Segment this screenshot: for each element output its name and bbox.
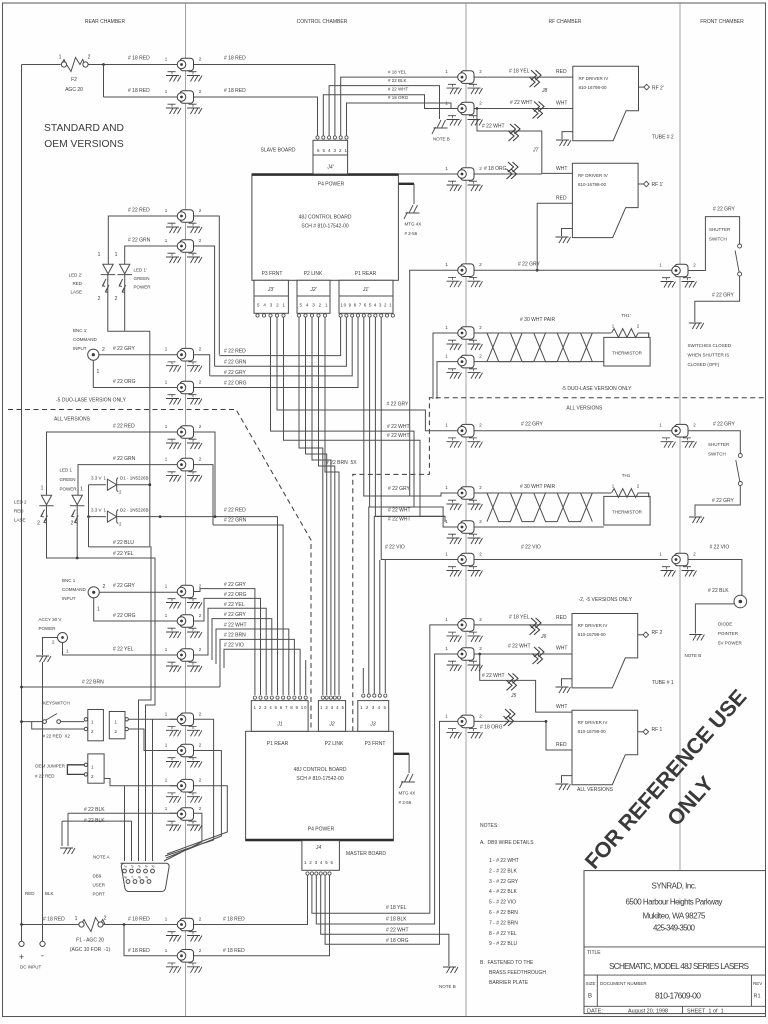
svg-text:RF DRIVER IV: RF DRIVER IV: [578, 720, 608, 725]
svg-text:WHT: WHT: [556, 646, 567, 652]
svg-text:ALL VERSIONS: ALL VERSIONS: [577, 787, 614, 793]
dashed brn-link boundary right: [353, 398, 766, 732]
svg-text:KEYSWITCH: KEYSWITCH: [43, 701, 70, 706]
svg-text:August 20, 1998: August 20, 1998: [628, 1009, 668, 1015]
wire: ACCY pin1 YEL row: [63, 643, 194, 656]
svg-text:# 22 RED X2: # 22 RED X2: [43, 734, 71, 739]
thermistor TH1 box: [604, 473, 650, 525]
svg-text:DATE:: DATE:: [587, 1009, 603, 1015]
title block: [584, 871, 766, 1015]
fuse F1: [70, 916, 111, 954]
svg-text:MASTER BOARD: MASTER BOARD: [346, 851, 386, 857]
wire: TH1' pair top: [466, 333, 648, 337]
svg-text:# 22 YEL: # 22 YEL: [113, 647, 134, 653]
wire: #18 RED bottom row1: [22, 876, 308, 925]
svg-text:# 22 BRN: # 22 BRN: [82, 680, 104, 686]
svg-text:INPUT: INPUT: [73, 346, 87, 351]
notes text block: [480, 823, 546, 986]
wire: slave board top edge to bulkhead row 174: [398, 173, 457, 175]
svg-text:RED: RED: [72, 281, 82, 286]
svg-text:COMMAND: COMMAND: [62, 587, 86, 592]
svg-text:LED 1: LED 1: [60, 468, 73, 473]
svg-text:THERMISTOR: THERMISTOR: [612, 510, 642, 515]
svg-text:2: 2: [37, 521, 40, 527]
wire: MTG stub lower board: [393, 753, 409, 755]
svg-text:RF 1': RF 1': [652, 182, 664, 188]
svg-text:WHT: WHT: [556, 704, 567, 710]
wire: #18 YEL into RF driver U1 RED: [466, 76, 573, 78]
svg-text:B: B: [588, 994, 592, 1000]
svg-text:J3': J3': [267, 287, 275, 293]
wire: DC terminals: [22, 900, 43, 941]
wire: #22 RED all versions row: [47, 432, 216, 517]
svg-text:SWITCHES CLOSED: SWITCHES CLOSED: [688, 343, 732, 348]
feedthrough FT-B13: [445, 713, 482, 738]
svg-text:2: 2: [115, 296, 118, 302]
LED1 green power: [70, 495, 84, 523]
thermistor TH1' box: [604, 313, 650, 366]
wire: D1 row: [89, 484, 150, 486]
slave 48J control board (upper): [252, 174, 399, 280]
svg-text:DOCUMENT NUMBER: DOCUMENT NUMBER: [600, 981, 647, 986]
wire: BNC1' #22 GRY row: [99, 355, 210, 376]
connector J1': [339, 280, 394, 317]
ACCY 30V power jack: [39, 617, 70, 654]
svg-text:P3 FRNT: P3 FRNT: [262, 271, 283, 277]
svg-text:-5 DUO-LASE VERSION ONLY: -5 DUO-LASE VERSION ONLY: [56, 398, 127, 404]
svg-text:# 22 GRY: # 22 GRY: [113, 583, 136, 589]
twisted pair TH1': [487, 333, 592, 362]
svg-text:7 - # 22 BRN: 7 - # 22 BRN: [489, 920, 518, 926]
wire: J3 p4 riser: [379, 560, 381, 695]
svg-text:810-16798-00: 810-16798-00: [578, 632, 607, 637]
svg-text:1: 1: [59, 55, 62, 61]
svg-text:1: 1: [80, 487, 83, 493]
wire: BLK rail ACCY to DC-: [42, 662, 44, 941]
ground note B (top): [432, 120, 448, 134]
wire: MTG stub upper board: [398, 183, 414, 185]
svg-text:5V POWER: 5V POWER: [718, 641, 743, 646]
svg-text:# 22 RED: # 22 RED: [113, 424, 135, 430]
svg-text:RF 2: RF 2: [652, 630, 663, 636]
wire: J1' p8 run to VIO row: [381, 318, 385, 560]
wire: shutter GRY row through front bulkhead: [466, 431, 740, 454]
svg-text:# 22 WHT: # 22 WHT: [482, 673, 505, 679]
RF driver U1 (RF 2'): [573, 66, 664, 140]
svg-text:GREEN: GREEN: [134, 276, 150, 281]
connector J2': [297, 280, 330, 317]
svg-text:# 22 BLK: # 22 BLK: [388, 78, 407, 83]
ground BLK pair: [60, 848, 75, 854]
svg-text:1: 1: [115, 252, 118, 258]
chamber divider control/rf: [465, 3, 467, 1016]
svg-text:# 18 RED: # 18 RED: [223, 917, 245, 923]
feedthrough FT-B10: [445, 552, 482, 577]
svg-text:LED 2': LED 2': [69, 273, 83, 278]
connector J3 (master): [358, 694, 389, 731]
svg-text:# 22 BRN: # 22 BRN: [224, 633, 246, 639]
svg-text:# 22 WHT: # 22 WHT: [224, 623, 247, 629]
svg-text:# 18 RED: # 18 RED: [128, 88, 150, 94]
svg-text:9 - # 22 BLU: 9 - # 22 BLU: [489, 941, 517, 947]
feedthrough FT-C3: [659, 552, 696, 577]
svg-text:POWER: POWER: [60, 487, 78, 492]
wire: #22 BLK slave to note B ground: [329, 86, 439, 138]
wire: #22 BRN row: [22, 686, 221, 688]
feedthrough FT-A15: [165, 806, 202, 831]
svg-text:STANDARD AND: STANDARD AND: [44, 123, 124, 134]
wire: #22 WHT J5 branch into U4 WHT: [480, 654, 572, 712]
ground ACCY: [36, 656, 51, 662]
wire: LED2' cathode drop: [108, 275, 150, 546]
svg-text:DC INPUT: DC INPUT: [20, 965, 42, 970]
feedthrough FT-B9: [445, 519, 482, 544]
svg-text:THERMISTOR: THERMISTOR: [612, 351, 642, 356]
svg-text:A. DB9 WIRE DETAILS: A. DB9 WIRE DETAILS: [480, 840, 534, 846]
svg-text:2: 2: [88, 55, 91, 61]
ground MTG 4X lower: [400, 774, 416, 788]
svg-text:1: 1: [41, 486, 44, 492]
svg-text:# 18 ORG: # 18 ORG: [386, 938, 409, 944]
feedthrough FT-A8: [165, 457, 202, 482]
wire: J3 p3 run: [374, 516, 445, 695]
zener diode D2 1N5226B: [91, 508, 149, 527]
svg-text:NOTE A: NOTE A: [93, 855, 110, 860]
svg-text:# 22 WHT: # 22 WHT: [387, 424, 410, 430]
svg-text:6500 Harbour Heights Parkway: 6500 Harbour Heights Parkway: [626, 898, 723, 907]
svg-text:# 18 BLK: # 18 BLK: [386, 917, 407, 923]
svg-text:RED: RED: [25, 891, 35, 896]
svg-text:RF DRIVER IV: RF DRIVER IV: [579, 76, 609, 81]
svg-text:SHUTTER: SHUTTER: [709, 227, 731, 232]
wire: J3 p2 run: [369, 507, 414, 695]
svg-text:# 22 YEL: # 22 YEL: [113, 551, 134, 557]
wire: #22 GRY row y270: [410, 217, 740, 496]
connector J2 (master): [318, 696, 345, 731]
svg-text:# 22 GRY: # 22 GRY: [224, 582, 247, 588]
svg-text:# 22 GRY: # 22 GRY: [713, 207, 736, 213]
svg-text:# 22 ORG: # 22 ORG: [224, 381, 247, 387]
feedthrough FT-A6: [165, 380, 202, 405]
wire: D left bus: [88, 485, 90, 547]
svg-text:# 18 RED: # 18 RED: [128, 56, 150, 62]
wire: DB9 right-side feeds: [164, 719, 227, 861]
svg-text:J4': J4': [326, 165, 334, 171]
svg-text:J3: J3: [369, 722, 376, 728]
svg-text:# 22 YEL: # 22 YEL: [224, 602, 245, 608]
svg-text:FRONT CHAMBER: FRONT CHAMBER: [700, 19, 744, 25]
svg-text:SWITCH: SWITCH: [708, 452, 726, 457]
svg-text:# 18 RED: # 18 RED: [128, 917, 150, 923]
svg-text:# 22 VIO: # 22 VIO: [385, 545, 405, 551]
svg-text:1 2 3 4 5: 1 2 3 4 5: [320, 705, 344, 710]
svg-text:48J CONTROL BOARD: 48J CONTROL BOARD: [299, 215, 352, 221]
svg-text:810-16798-00: 810-16798-00: [579, 85, 608, 90]
LED2' red lase: [101, 264, 115, 292]
svg-text:# 18 YEL: # 18 YEL: [509, 69, 530, 75]
wire: #18 ORG slave: [347, 103, 452, 138]
svg-text:# 18 RED: # 18 RED: [224, 88, 246, 94]
feedthrough FT-B8: [445, 485, 482, 510]
svg-text:TUBE # 2: TUBE # 2: [652, 135, 674, 141]
svg-text:P3 FRNT: P3 FRNT: [365, 741, 386, 747]
svg-text:TUBE # 1: TUBE # 1: [652, 680, 674, 686]
svg-text:# 22 GRN: # 22 GRN: [224, 518, 247, 524]
svg-text:# 18 RED: # 18 RED: [128, 948, 150, 954]
svg-text:F2: F2: [71, 77, 77, 83]
svg-text:RED: RED: [556, 196, 567, 202]
wire: U4 RED: [546, 721, 572, 750]
wire: keyswitch feed: [22, 722, 85, 729]
wire: J2' brn link bundle p3: [312, 318, 331, 696]
svg-text:# 22 WHT: # 22 WHT: [482, 124, 505, 130]
feedthrough FT-A17: [165, 948, 202, 973]
wire: TH1 pair bottom: [466, 526, 604, 528]
svg-text:2: 2: [71, 521, 74, 527]
svg-text:# 22 GRN: # 22 GRN: [113, 456, 136, 462]
feedthrough FT-A4: [165, 238, 202, 263]
ground RF driver U3: [562, 679, 573, 686]
svg-text:1: 1: [97, 369, 100, 375]
feedthrough FT-A1: [165, 57, 202, 82]
wire: #22 WHT J7 branch into RF driver U2 WHT: [477, 109, 572, 174]
wire: RF driver U2 RED from GRY row junction: [537, 203, 572, 270]
svg-text:# 2-56: # 2-56: [405, 231, 418, 236]
wire: BNC1 pin1 ORG row: [94, 598, 194, 621]
svg-text:RED: RED: [556, 742, 567, 748]
svg-text:# 22 GRY: # 22 GRY: [713, 422, 736, 428]
connector J4 (master): [302, 841, 386, 876]
svg-text:# 22 GRY: # 22 GRY: [224, 370, 247, 376]
wire: J1' p7 run to WHT row: [375, 318, 445, 517]
wire: OEM jumper to bulkhead: [104, 779, 193, 786]
wire: RF driver U3 RED row: [466, 624, 572, 626]
svg-text:10 9 8 7 6 5 4 3 2 1: 10 9 8 7 6 5 4 3 2 1: [341, 303, 392, 308]
svg-text:COMMAND: COMMAND: [73, 337, 97, 342]
svg-text:2: 2: [104, 916, 107, 922]
svg-text:# 18 ORG: # 18 ORG: [484, 166, 507, 172]
wire: J1 p10 riser: [305, 660, 307, 695]
svg-text:J1: J1: [276, 722, 283, 728]
svg-text:NOTE B: NOTE B: [439, 984, 456, 989]
svg-text:1 2 3 4 5 6: 1 2 3 4 5 6: [304, 860, 333, 865]
feedthrough FT-B7: [445, 423, 482, 448]
svg-text:# 22 WHT: # 22 WHT: [510, 100, 533, 106]
ground RF driver U1: [562, 132, 573, 139]
feedthrough FT-B2: [445, 101, 482, 126]
svg-text:1 2 3 4 5: 1 2 3 4 5: [360, 705, 386, 710]
svg-text:CONTROL CHAMBER: CONTROL CHAMBER: [297, 19, 348, 25]
svg-text:NOTE B: NOTE B: [433, 137, 450, 142]
svg-text:SHUTTER: SHUTTER: [708, 442, 730, 447]
svg-text:# 22 GRY: # 22 GRY: [521, 422, 544, 428]
svg-text:# 22 BRN 5X: # 22 BRN 5X: [326, 460, 357, 466]
DC input terminals: [19, 891, 54, 970]
wire: J3 p1 stub: [362, 668, 364, 693]
wire: shutter SW1 lower leg to ground: [695, 276, 740, 322]
svg-text:1: 1: [75, 916, 78, 922]
svg-text:ALL VERSIONS: ALL VERSIONS: [54, 417, 91, 423]
svg-text:J5: J5: [510, 693, 517, 699]
chamber divider rear/control: [185, 3, 187, 1016]
twist J8: [530, 70, 542, 87]
svg-text:# 30 WHT PAIR: # 30 WHT PAIR: [520, 484, 555, 490]
svg-text:# 22 BLK: # 22 BLK: [708, 588, 729, 594]
svg-text:# 22 BLK: # 22 BLK: [84, 818, 105, 824]
svg-text:MTG 4X: MTG 4X: [405, 222, 422, 227]
wire: #22 BLU row: [89, 547, 152, 861]
svg-text:# 22 WHT: # 22 WHT: [508, 644, 531, 650]
svg-text:# 30 WHT PAIR: # 30 WHT PAIR: [520, 317, 555, 323]
svg-text:# 22 GRY: # 22 GRY: [113, 346, 136, 352]
svg-text:# 2-56: # 2-56: [399, 800, 412, 805]
wire: BNC1' pin1 to #22 ORG row: [93, 318, 358, 388]
svg-text:NOTES:: NOTES:: [480, 823, 499, 829]
svg-text:# 18 ORG: # 18 ORG: [388, 95, 409, 100]
wire: #18 RED bottom row2: [124, 876, 330, 956]
wire: DB9 vertical bundle: [125, 719, 153, 861]
svg-text:# 18 RED: # 18 RED: [43, 917, 65, 923]
svg-text:# 22 WHT: # 22 WHT: [388, 87, 409, 92]
svg-text:# 22 RED: # 22 RED: [128, 208, 150, 214]
svg-text:LED 1': LED 1': [134, 268, 148, 273]
wire: J2' brn link bundle p2: [306, 318, 327, 696]
svg-text:# 22 WHT: # 22 WHT: [388, 517, 411, 523]
svg-text:POWER: POWER: [134, 285, 152, 290]
master 48J control board (lower): [246, 731, 394, 840]
wire: J1'p3 #22 GRY row: [210, 318, 353, 376]
feedthrough FT-C1: [659, 263, 696, 288]
LED1' green power: [118, 264, 132, 292]
svg-text:# 22 GRY: # 22 GRY: [224, 612, 247, 618]
svg-text:# 22 VIO: # 22 VIO: [710, 545, 730, 551]
wire: J4 p2 YEL long run: [312, 625, 458, 913]
feedthrough FT-A11: [165, 647, 202, 672]
svg-text:ALL VERSIONS: ALL VERSIONS: [566, 406, 603, 412]
svg-text:USER: USER: [93, 883, 106, 888]
feedthrough FT-A14: [165, 778, 202, 803]
svg-text:MTG 4X: MTG 4X: [399, 791, 416, 796]
feedthrough FT-A7: [165, 424, 202, 449]
wire: J1 stack row VIO: [224, 649, 300, 695]
svg-text:1 - # 22 WHT: 1 - # 22 WHT: [489, 858, 519, 864]
wire: J4 p3 BLK long run: [316, 654, 457, 924]
wire: J3'p3 GRY run to RF: [271, 318, 458, 528]
svg-text:# 18 YEL: # 18 YEL: [509, 615, 530, 621]
svg-text:P1 REAR: P1 REAR: [267, 741, 289, 747]
svg-text:P2 LINK: P2 LINK: [304, 271, 323, 277]
wire: J1' p6 run to WHT row: [370, 318, 414, 508]
feedthrough FT-A2: [165, 89, 202, 114]
fuse F2: [59, 55, 91, 94]
svg-text:# 18 RED: # 18 RED: [224, 56, 246, 62]
feedthrough FT-A16: [165, 917, 202, 942]
svg-text:# 22 GRY: # 22 GRY: [712, 498, 735, 504]
svg-text:WHT: WHT: [556, 166, 567, 172]
svg-text:ACCY 30 V: ACCY 30 V: [39, 617, 62, 622]
wire: J2' brn link bundle p1: [299, 318, 323, 696]
wire: #22 GRY row into TH pair conn: [410, 493, 458, 496]
svg-text:# 22 WHT: # 22 WHT: [388, 508, 411, 514]
BNC 1' command input: [73, 328, 105, 375]
svg-text:2: 2: [103, 584, 106, 590]
svg-text:BARRIER PLATE: BARRIER PLATE: [489, 980, 529, 986]
svg-text:OEM JUMPER: OEM JUMPER: [35, 764, 66, 769]
wire: LED1' cathode drop: [124, 275, 126, 332]
ground MTG 4X upper: [404, 205, 420, 219]
ground RF driver U4: [562, 776, 573, 783]
svg-text:J1': J1': [362, 287, 370, 293]
svg-text:+: +: [19, 952, 24, 962]
svg-text:3.3 V: 3.3 V: [91, 508, 102, 513]
feedthrough FT-A5: [165, 347, 202, 372]
svg-text:R1: R1: [754, 994, 761, 1000]
svg-text:48J CONTROL BOARD: 48J CONTROL BOARD: [294, 767, 347, 773]
svg-text:# 22 BLK: # 22 BLK: [84, 807, 105, 813]
svg-text:# 22 BLU: # 22 BLU: [113, 540, 134, 546]
svg-text:SCHEMATIC, MODEL 48J SERIES LA: SCHEMATIC, MODEL 48J SERIES LASERS: [609, 962, 750, 971]
svg-text:2: 2: [102, 347, 105, 353]
svg-text:BRASS FEEDTHROUGH: BRASS FEEDTHROUGH: [489, 970, 546, 976]
wire: ACCY pin2 to rail and ground: [43, 638, 58, 656]
svg-text:B. FASTENED TO THE: B. FASTENED TO THE: [480, 960, 534, 966]
svg-text:# 22 RED: # 22 RED: [224, 349, 246, 355]
svg-text:NOTE B: NOTE B: [685, 653, 702, 658]
svg-text:# 22 WHT: # 22 WHT: [387, 433, 410, 439]
wire: J2' brn link bundle p4: [319, 318, 335, 696]
svg-text:F1 - AGC 20: F1 - AGC 20: [76, 938, 104, 944]
RF driver U3 (RF 2): [572, 614, 663, 688]
wire: #22 GRN to J1 p6: [213, 525, 283, 695]
svg-text:P1 REAR: P1 REAR: [355, 271, 377, 277]
wire: keyswitch box2 to bulkhead: [128, 719, 193, 750]
feedthrough FT-B5: [445, 325, 482, 350]
wire: J1 stack row BRN: [220, 639, 294, 695]
svg-text:# 22 GRY: # 22 GRY: [712, 293, 735, 299]
svg-text:# 22 ORG: # 22 ORG: [113, 613, 136, 619]
wire: #22 GRN all versions row: [78, 465, 213, 525]
svg-text:-2, -5 VERSIONS ONLY: -2, -5 VERSIONS ONLY: [579, 597, 633, 603]
svg-text:SIZE: SIZE: [586, 981, 596, 986]
svg-text:# 22 GRY: # 22 GRY: [388, 486, 411, 492]
svg-text:# 22 ORG: # 22 ORG: [113, 379, 136, 385]
svg-text:SCH # 810-17542-00: SCH # 810-17542-00: [301, 224, 348, 230]
RF driver U2 (RF 1'): [572, 163, 663, 237]
svg-text:# 22 GRN: # 22 GRN: [224, 360, 247, 366]
svg-text:D1 - 1N5226B: D1 - 1N5226B: [120, 476, 149, 481]
svg-text:2: 2: [98, 296, 101, 302]
svg-text:810-16798-00: 810-16798-00: [578, 182, 607, 187]
junction J7 branch: [476, 107, 479, 110]
ground RF driver U2: [562, 229, 573, 237]
connector J4' (slave board): [261, 136, 349, 174]
feedthrough FT-B4: [445, 262, 482, 287]
wire: J1 stack row WHT: [216, 629, 289, 695]
junction J5 branch: [478, 653, 481, 656]
svg-text:RF 2': RF 2': [652, 85, 664, 91]
connector J1 (master): [251, 696, 308, 731]
svg-text:J2': J2': [309, 287, 317, 293]
connector J3': [254, 280, 288, 317]
wire: J1'p2 #22 GRN row: [215, 318, 347, 367]
wire: J3'p5 run WHT: [284, 318, 446, 523]
svg-text:6 5 4 3 2 1: 6 5 4 3 2 1: [317, 148, 347, 153]
svg-text:SLAVE BOARD: SLAVE BOARD: [261, 148, 296, 154]
svg-text:D2 - 1N5226B: D2 - 1N5226B: [120, 508, 149, 513]
svg-text:# 22 RED: # 22 RED: [35, 774, 55, 779]
chamber divider rf/front: [679, 3, 681, 870]
wire: D2 #22 RED row to J1 p5: [89, 517, 278, 695]
